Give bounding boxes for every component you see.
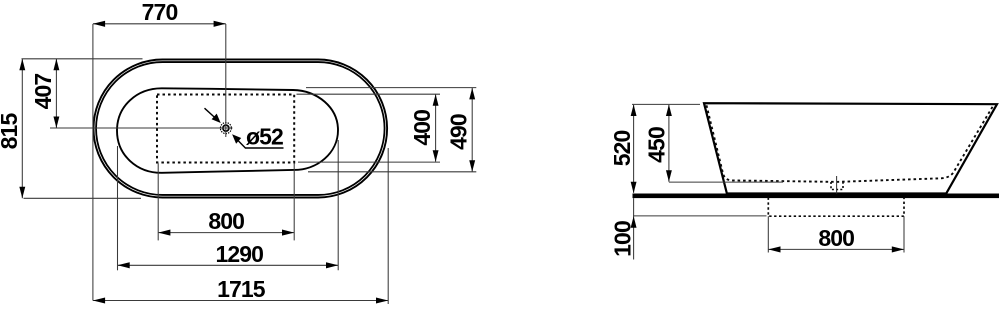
svg-text:407: 407: [30, 74, 56, 110]
extension line plinth left: [767, 216, 769, 252]
extension line left (770/1715): [92, 24, 94, 301]
extension line 800 right: [293, 163, 295, 240]
extension line side-view top: [632, 103, 700, 105]
extension line 1715 right: [387, 148, 389, 304]
extension line plinth right: [903, 216, 905, 252]
bathtub top view: outer rim outer line: [94, 60, 388, 198]
bathtub top view: outer rim inner line: [96, 62, 385, 195]
svg-text:800: 800: [818, 225, 854, 251]
dimension 400 line: [435, 94, 437, 162]
side view: inner surface (dotted): [707, 105, 994, 182]
dimension 407 line: [55, 59, 57, 128]
svg-text:400: 400: [409, 110, 435, 146]
side view: drain centerline: [836, 176, 838, 194]
dimension 800 top-view line: [158, 232, 294, 234]
svg-text:ø52: ø52: [246, 124, 283, 150]
dimension 100 line: [633, 198, 635, 259]
extension line 490 top: [306, 87, 476, 89]
svg-text:770: 770: [142, 0, 178, 25]
drain vertical centerline / 770 extension: [225, 24, 227, 137]
extension line 400 top: [297, 93, 441, 95]
dimension 450 line: [668, 105, 670, 182]
extension line bottom (815 bottom): [24, 197, 142, 199]
svg-text:1715: 1715: [217, 276, 266, 302]
side view: tub outline: [704, 103, 997, 193]
svg-text:800: 800: [208, 208, 244, 234]
extension line 400 bottom: [298, 161, 440, 163]
bathtub top view: hidden bottom surface (dashed rectangle): [157, 95, 294, 163]
side view: drain pocket (dotted): [831, 182, 843, 190]
dimension 490 line: [471, 88, 473, 172]
side view: plinth hidden outline (dotted): [768, 198, 904, 217]
svg-text:1290: 1290: [216, 241, 264, 267]
drain leader arrow upper-left: [205, 108, 217, 118]
svg-text:100: 100: [610, 221, 636, 257]
extension line top (815 top): [22, 58, 143, 60]
dimension 520 line: [633, 105, 635, 193]
extension line 800 left: [157, 163, 159, 240]
drain inner circle: [223, 125, 229, 131]
extension line plinth bottom left: [633, 215, 767, 217]
svg-text:815: 815: [0, 113, 22, 150]
extension line 490 bottom: [308, 171, 476, 173]
dimension 1715 line: [93, 300, 388, 302]
dimension 770 line: [93, 23, 226, 25]
extension line 1290 left: [117, 146, 119, 270]
svg-text:450: 450: [644, 127, 670, 163]
side view: floor line: [633, 194, 1000, 199]
drain outer circle (dashed): [220, 123, 231, 134]
dimension 1290 line: [118, 264, 339, 266]
dimension 815 line: [21, 59, 23, 199]
drain horizontal centerline: [50, 127, 233, 129]
svg-text:520: 520: [609, 130, 635, 166]
extension line 450 bottom: [669, 181, 783, 183]
dimension 800 side-view line: [768, 248, 904, 250]
extension line 1290 right: [337, 140, 339, 270]
bathtub top view: inner basin rim: [117, 88, 338, 173]
drain leader arrow lower-right with underline: [237, 139, 284, 148]
svg-text:490: 490: [446, 114, 472, 150]
